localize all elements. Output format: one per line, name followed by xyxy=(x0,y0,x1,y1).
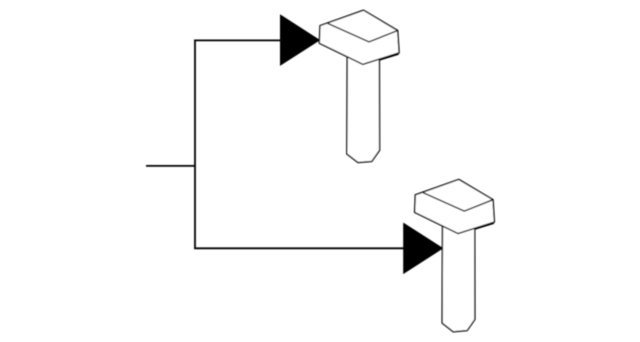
wire: bottom branch xyxy=(194,247,404,249)
bolt 2 (lower) xyxy=(415,179,495,331)
arrow 2 (to lower bolt shaft) xyxy=(403,223,443,275)
bolt 1 (upper) xyxy=(319,10,399,162)
wire: top branch xyxy=(194,39,281,41)
arrow 1 (to upper bolt head) xyxy=(280,14,320,66)
wire: left stub xyxy=(146,165,195,167)
wire: vertical trunk xyxy=(194,40,196,248)
